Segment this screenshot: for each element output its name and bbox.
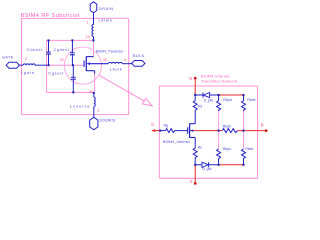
svg-text:D_jsb: D_jsb bbox=[202, 167, 211, 171]
svg-text:20: 20 bbox=[60, 58, 64, 62]
svg-text:10: 10 bbox=[86, 35, 90, 39]
svg-text:DRAIN: DRAIN bbox=[99, 7, 114, 11]
svg-text:D: D bbox=[189, 76, 192, 81]
svg-text:G: G bbox=[151, 122, 154, 127]
svg-text:BSIM4_Transistor: BSIM4_Transistor bbox=[96, 50, 124, 54]
svg-text:Rbdb: Rbdb bbox=[247, 98, 255, 102]
svg-text:2: 2 bbox=[25, 57, 27, 61]
svg-text:Rbpb: Rbpb bbox=[223, 124, 231, 128]
svg-text:BSIM4_Intrinsic: BSIM4_Intrinsic bbox=[163, 140, 190, 144]
svg-text:Ldrain: Ldrain bbox=[99, 19, 113, 23]
svg-text:1: 1 bbox=[86, 20, 88, 24]
svg-text:Cgsext: Cgsext bbox=[48, 72, 64, 76]
svg-text:B: B bbox=[261, 123, 264, 128]
svg-text:D_jdb: D_jdb bbox=[204, 98, 213, 102]
svg-text:Cgdext: Cgdext bbox=[54, 48, 70, 52]
svg-text:4: 4 bbox=[124, 58, 126, 62]
svg-text:Rbsb: Rbsb bbox=[245, 147, 253, 151]
svg-text:Rg: Rg bbox=[164, 124, 169, 128]
svg-text:Rd: Rd bbox=[198, 104, 203, 108]
svg-text:Lbulk: Lbulk bbox=[110, 67, 123, 71]
svg-text:Rbps: Rbps bbox=[223, 147, 231, 151]
svg-text:Lsource: Lsource bbox=[70, 105, 91, 109]
svg-text:Rbpd: Rbpd bbox=[223, 98, 231, 102]
svg-text:Cdsext: Cdsext bbox=[27, 48, 43, 52]
svg-text:Transistor Network: Transistor Network bbox=[201, 78, 237, 83]
svg-text:40: 40 bbox=[103, 58, 107, 62]
svg-text:S: S bbox=[190, 179, 193, 184]
svg-text:SOURCE: SOURCE bbox=[99, 118, 116, 122]
svg-text:GATE: GATE bbox=[2, 56, 14, 60]
svg-text:BSIM4 RF Subcircuit: BSIM4 RF Subcircuit bbox=[21, 13, 81, 19]
svg-text:50: 50 bbox=[89, 90, 93, 94]
svg-text:BULK: BULK bbox=[133, 54, 145, 58]
svg-text:Lgate: Lgate bbox=[21, 71, 36, 75]
svg-text:Rs: Rs bbox=[198, 145, 203, 149]
svg-text:3: 3 bbox=[97, 108, 99, 112]
